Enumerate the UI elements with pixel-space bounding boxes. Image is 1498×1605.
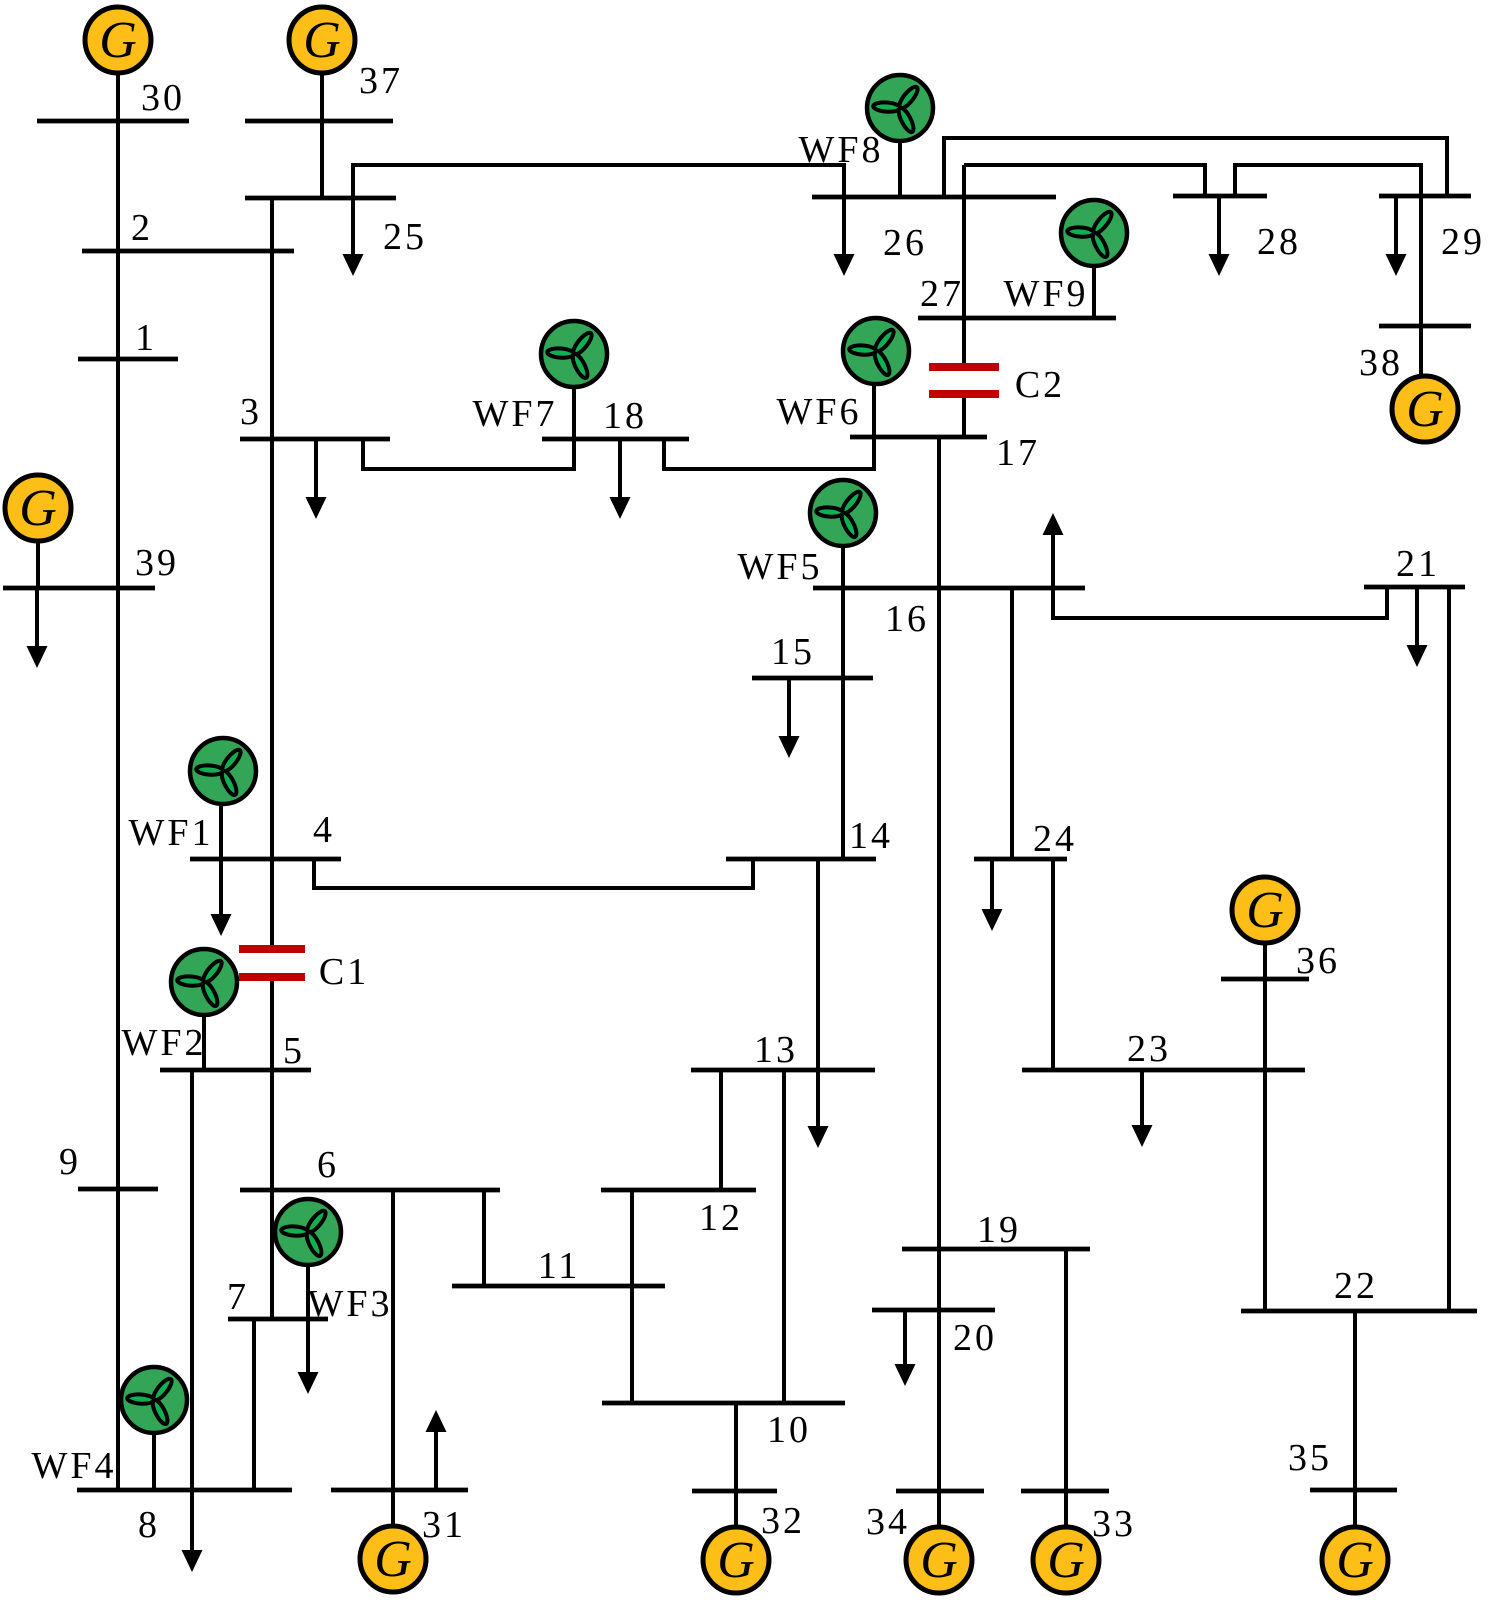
wire tie bus27 riser to bus 28 left [964, 165, 1205, 196]
load arrow bus 13 [808, 1070, 829, 1148]
generator G bus 31 [360, 1526, 426, 1592]
bus 36 [1221, 977, 1309, 982]
bus 10 [602, 1401, 845, 1406]
svg-text:19: 19 [977, 1209, 1021, 1251]
svg-text:G: G [1406, 381, 1444, 438]
wind farm WF3 [275, 1199, 341, 1265]
svg-text:G: G [1047, 1532, 1085, 1589]
load arrow bus 26 [834, 197, 855, 276]
wire bus 13 to bus 10 [782, 1070, 786, 1403]
wind farm WF4 [121, 1367, 187, 1433]
wind farm WF5 [810, 480, 876, 546]
bus 15 [752, 676, 873, 681]
svg-text:WF6: WF6 [777, 391, 862, 433]
svg-text:15: 15 [771, 631, 815, 673]
wire bus 34 to G34 [937, 1491, 941, 1529]
load arrow bus 3 [306, 439, 327, 519]
bus 1 [78, 357, 178, 362]
bus 28 [1173, 194, 1267, 199]
load arrow bus 21 [1407, 587, 1428, 667]
svg-text:31: 31 [422, 1504, 466, 1546]
wind farm WF8 [867, 75, 933, 141]
wire bus 14 to bus 13 [816, 859, 820, 1070]
bus 29 [1379, 194, 1471, 199]
wire bus12-bus11-bus10 vertical [630, 1190, 634, 1403]
svg-text:G: G [920, 1532, 958, 1589]
bus 5 [160, 1068, 311, 1073]
load arrow bus 28 [1209, 196, 1230, 276]
wind farm WF2 [171, 949, 237, 1015]
wire bus 24 to bus 23 [1051, 859, 1055, 1070]
wind farm WF6 [843, 318, 909, 384]
bus 26 [812, 195, 1056, 200]
generator G bus 37 [289, 7, 355, 73]
wire WF1 drop to bus 4 [219, 804, 223, 859]
wire bus16-bus15-bus14 vertical [841, 588, 845, 859]
svg-text:5: 5 [283, 1030, 305, 1072]
bus 18 [542, 437, 689, 442]
load arrow bus 18 [610, 439, 631, 519]
svg-text:C2: C2 [1015, 364, 1065, 406]
bus 20 [872, 1308, 995, 1313]
wire bus 21 to bus 22 [1447, 587, 1451, 1311]
capacitor C1 [239, 949, 305, 977]
bus 38 [1379, 324, 1471, 329]
svg-text:6: 6 [317, 1144, 339, 1186]
wire bus 27 riser down through bus 26 to C2 [962, 165, 966, 367]
svg-text:20: 20 [953, 1317, 997, 1359]
wire WF8 drop to bus 26 [898, 141, 902, 197]
bus 3 [240, 437, 390, 442]
injection arrow bus 16 [1043, 513, 1064, 588]
generator G bus 33 [1033, 1527, 1099, 1593]
wire bus 13 to bus 12 [719, 1070, 723, 1190]
bus 39 [3, 586, 155, 591]
generator G bus 30 [85, 7, 151, 73]
bus 34 [896, 1489, 984, 1494]
svg-text:12: 12 [699, 1197, 743, 1239]
wire C2 to bus 17 [962, 394, 966, 437]
bus 11 [452, 1284, 665, 1289]
load arrow bus 24 [982, 859, 1003, 931]
wire bus 33 to G33 [1064, 1491, 1068, 1529]
svg-text:23: 23 [1127, 1028, 1171, 1070]
svg-text:G: G [1336, 1532, 1374, 1589]
svg-text:35: 35 [1288, 1437, 1332, 1479]
svg-text:8: 8 [138, 1504, 160, 1546]
wire top tie bus26 to bus29 [944, 138, 1447, 197]
bus 32 [692, 1489, 777, 1494]
wire bus 7 to bus 8 [252, 1319, 256, 1490]
svg-text:33: 33 [1092, 1503, 1136, 1545]
svg-text:30: 30 [141, 77, 185, 119]
bus 27 [918, 316, 1116, 321]
svg-text:18: 18 [603, 395, 647, 437]
wire WF2 drop to bus 5 [202, 1015, 206, 1070]
wire bus 35 to G35 [1353, 1490, 1357, 1529]
wire WF9 drop to bus 27 [1092, 266, 1096, 318]
bus 6 [240, 1188, 500, 1193]
wire bus 31 to G31 [391, 1490, 395, 1528]
wire G39 drop to bus 39 [36, 539, 40, 588]
svg-text:7: 7 [227, 1276, 249, 1318]
svg-text:38: 38 [1359, 342, 1403, 384]
svg-text:32: 32 [761, 1500, 805, 1542]
load arrow bus 4 (WF1 feeder) [211, 859, 232, 936]
wire bus 19 to bus 33 [1064, 1249, 1068, 1491]
svg-text:WF4: WF4 [32, 1445, 117, 1487]
bus 25 [245, 196, 396, 201]
bus 21 [1364, 585, 1465, 590]
bus 14 [726, 857, 876, 862]
wire bus17-bus16-bus19-bus20-bus34 long vertical [937, 437, 941, 1491]
load arrow bus 29 [1386, 196, 1407, 276]
bus 30 [37, 119, 189, 124]
svg-text:3: 3 [240, 391, 262, 433]
wire WF6 drop to bus 17 [872, 384, 876, 437]
wire WF3 drop to bus 7 [306, 1265, 310, 1319]
svg-text:24: 24 [1033, 818, 1077, 860]
capacitor C2 [929, 367, 999, 394]
generator G bus 35 [1322, 1527, 1388, 1593]
svg-text:WF9: WF9 [1004, 273, 1089, 315]
wire bus 32 to G32 [734, 1491, 738, 1529]
wire bus 3 to bus 18 [363, 439, 574, 469]
svg-text:39: 39 [135, 542, 179, 584]
wire C1 to bus5-bus6-bus7 [270, 975, 274, 1319]
generator G bus 34 [906, 1527, 972, 1593]
svg-text:4: 4 [313, 809, 335, 851]
bus 22 [1241, 1309, 1477, 1314]
wind farm WF7 [541, 321, 607, 387]
svg-text:WF7: WF7 [473, 393, 558, 435]
wire tie bus 28 right to bus 29 [1235, 165, 1421, 196]
generator G bus 36 [1232, 877, 1298, 943]
svg-text:G: G [19, 480, 57, 537]
bus 9 [78, 1187, 158, 1192]
bus 23 [1022, 1068, 1305, 1073]
svg-text:G: G [374, 1531, 412, 1588]
bus 35 [1310, 1488, 1397, 1493]
wire WF4 drop to bus 8 [152, 1433, 156, 1490]
svg-text:G: G [717, 1532, 755, 1589]
svg-text:G: G [1246, 882, 1284, 939]
svg-text:16: 16 [885, 598, 929, 640]
load arrow bus 39 [27, 588, 48, 668]
wire bus 5 to bus 8 [190, 1070, 194, 1490]
svg-text:11: 11 [538, 1245, 581, 1287]
load arrow bus 8 [182, 1490, 203, 1572]
svg-text:WF3: WF3 [308, 1283, 393, 1325]
bus 12 [601, 1188, 756, 1193]
svg-text:34: 34 [866, 1501, 910, 1543]
wire bus 6 to bus 11 [482, 1190, 486, 1286]
svg-text:G: G [99, 12, 137, 69]
bus 17 [850, 435, 987, 440]
wire bus 4 to bus 14 [314, 859, 753, 888]
wire bus 16 to bus 24 [1010, 588, 1014, 859]
wire bus 6 to bus 31 [391, 1190, 395, 1490]
svg-text:13: 13 [754, 1029, 798, 1071]
wire bus 22 to bus 35 [1353, 1311, 1357, 1490]
bus 16 [813, 586, 1085, 591]
generator G bus 38 [1392, 376, 1458, 442]
bus 8 [77, 1488, 292, 1493]
wire bus 25 to bus 26 tie [353, 165, 844, 198]
svg-text:27: 27 [920, 273, 964, 315]
generator G bus 39 [5, 475, 71, 541]
svg-text:WF2: WF2 [122, 1022, 207, 1064]
bus 13 [691, 1068, 875, 1073]
wire WF7 drop to bus 18 [572, 387, 576, 439]
svg-text:36: 36 [1296, 940, 1340, 982]
bus 7 [228, 1317, 328, 1322]
svg-text:22: 22 [1334, 1265, 1378, 1307]
svg-text:2: 2 [131, 207, 153, 249]
bus 31 [331, 1488, 468, 1493]
load arrow bus 20 [895, 1310, 916, 1386]
svg-text:28: 28 [1257, 221, 1301, 263]
svg-text:10: 10 [767, 1409, 811, 1451]
wire bus 10 to bus 32 [734, 1403, 738, 1491]
svg-text:9: 9 [59, 1141, 81, 1183]
load arrow bus 15 [779, 678, 800, 758]
bus 19 [902, 1247, 1090, 1252]
svg-text:14: 14 [849, 815, 893, 857]
svg-text:C1: C1 [319, 951, 369, 993]
bus 33 [1021, 1489, 1109, 1494]
svg-text:17: 17 [996, 432, 1040, 474]
load arrow bus 25 [343, 198, 364, 276]
svg-text:WF5: WF5 [738, 546, 823, 588]
svg-text:21: 21 [1396, 543, 1440, 585]
wire bus 18 to bus 17 [664, 437, 874, 469]
wire WF5 drop to bus 16 [841, 546, 845, 588]
generator G bus 32 [703, 1527, 769, 1593]
wire G37 to bus 37 and bus 25 [320, 73, 324, 198]
svg-text:WF8: WF8 [799, 129, 884, 171]
svg-text:WF1: WF1 [129, 812, 214, 854]
load arrow bus 7 (WF3 feeder) [298, 1319, 319, 1394]
load arrow bus 23 [1132, 1070, 1153, 1147]
wire G36 drop through bus 36 and bus 23 to bus 22 [1263, 941, 1267, 1311]
bus 2 [82, 249, 294, 254]
wire bus25-bus2-bus3-bus4 to C1 [270, 198, 274, 949]
wire bus 29 to bus 38 to G38 [1419, 196, 1423, 378]
svg-text:25: 25 [383, 216, 427, 258]
bus 4 [190, 857, 341, 862]
injection arrow bus 31 [426, 1410, 447, 1490]
svg-text:37: 37 [359, 60, 403, 102]
bus 24 [974, 857, 1067, 862]
svg-text:G: G [303, 12, 341, 69]
svg-text:26: 26 [883, 222, 927, 264]
wind farm WF9 [1061, 200, 1127, 266]
wire bus 16 to bus 21 [1053, 587, 1387, 618]
bus 37 [245, 119, 393, 124]
svg-text:1: 1 [135, 317, 157, 359]
wire bus30-bus2-bus1-bus39-bus9-bus8 backbone [116, 73, 120, 1490]
wind farm WF1 [190, 738, 256, 804]
svg-text:29: 29 [1441, 221, 1485, 263]
